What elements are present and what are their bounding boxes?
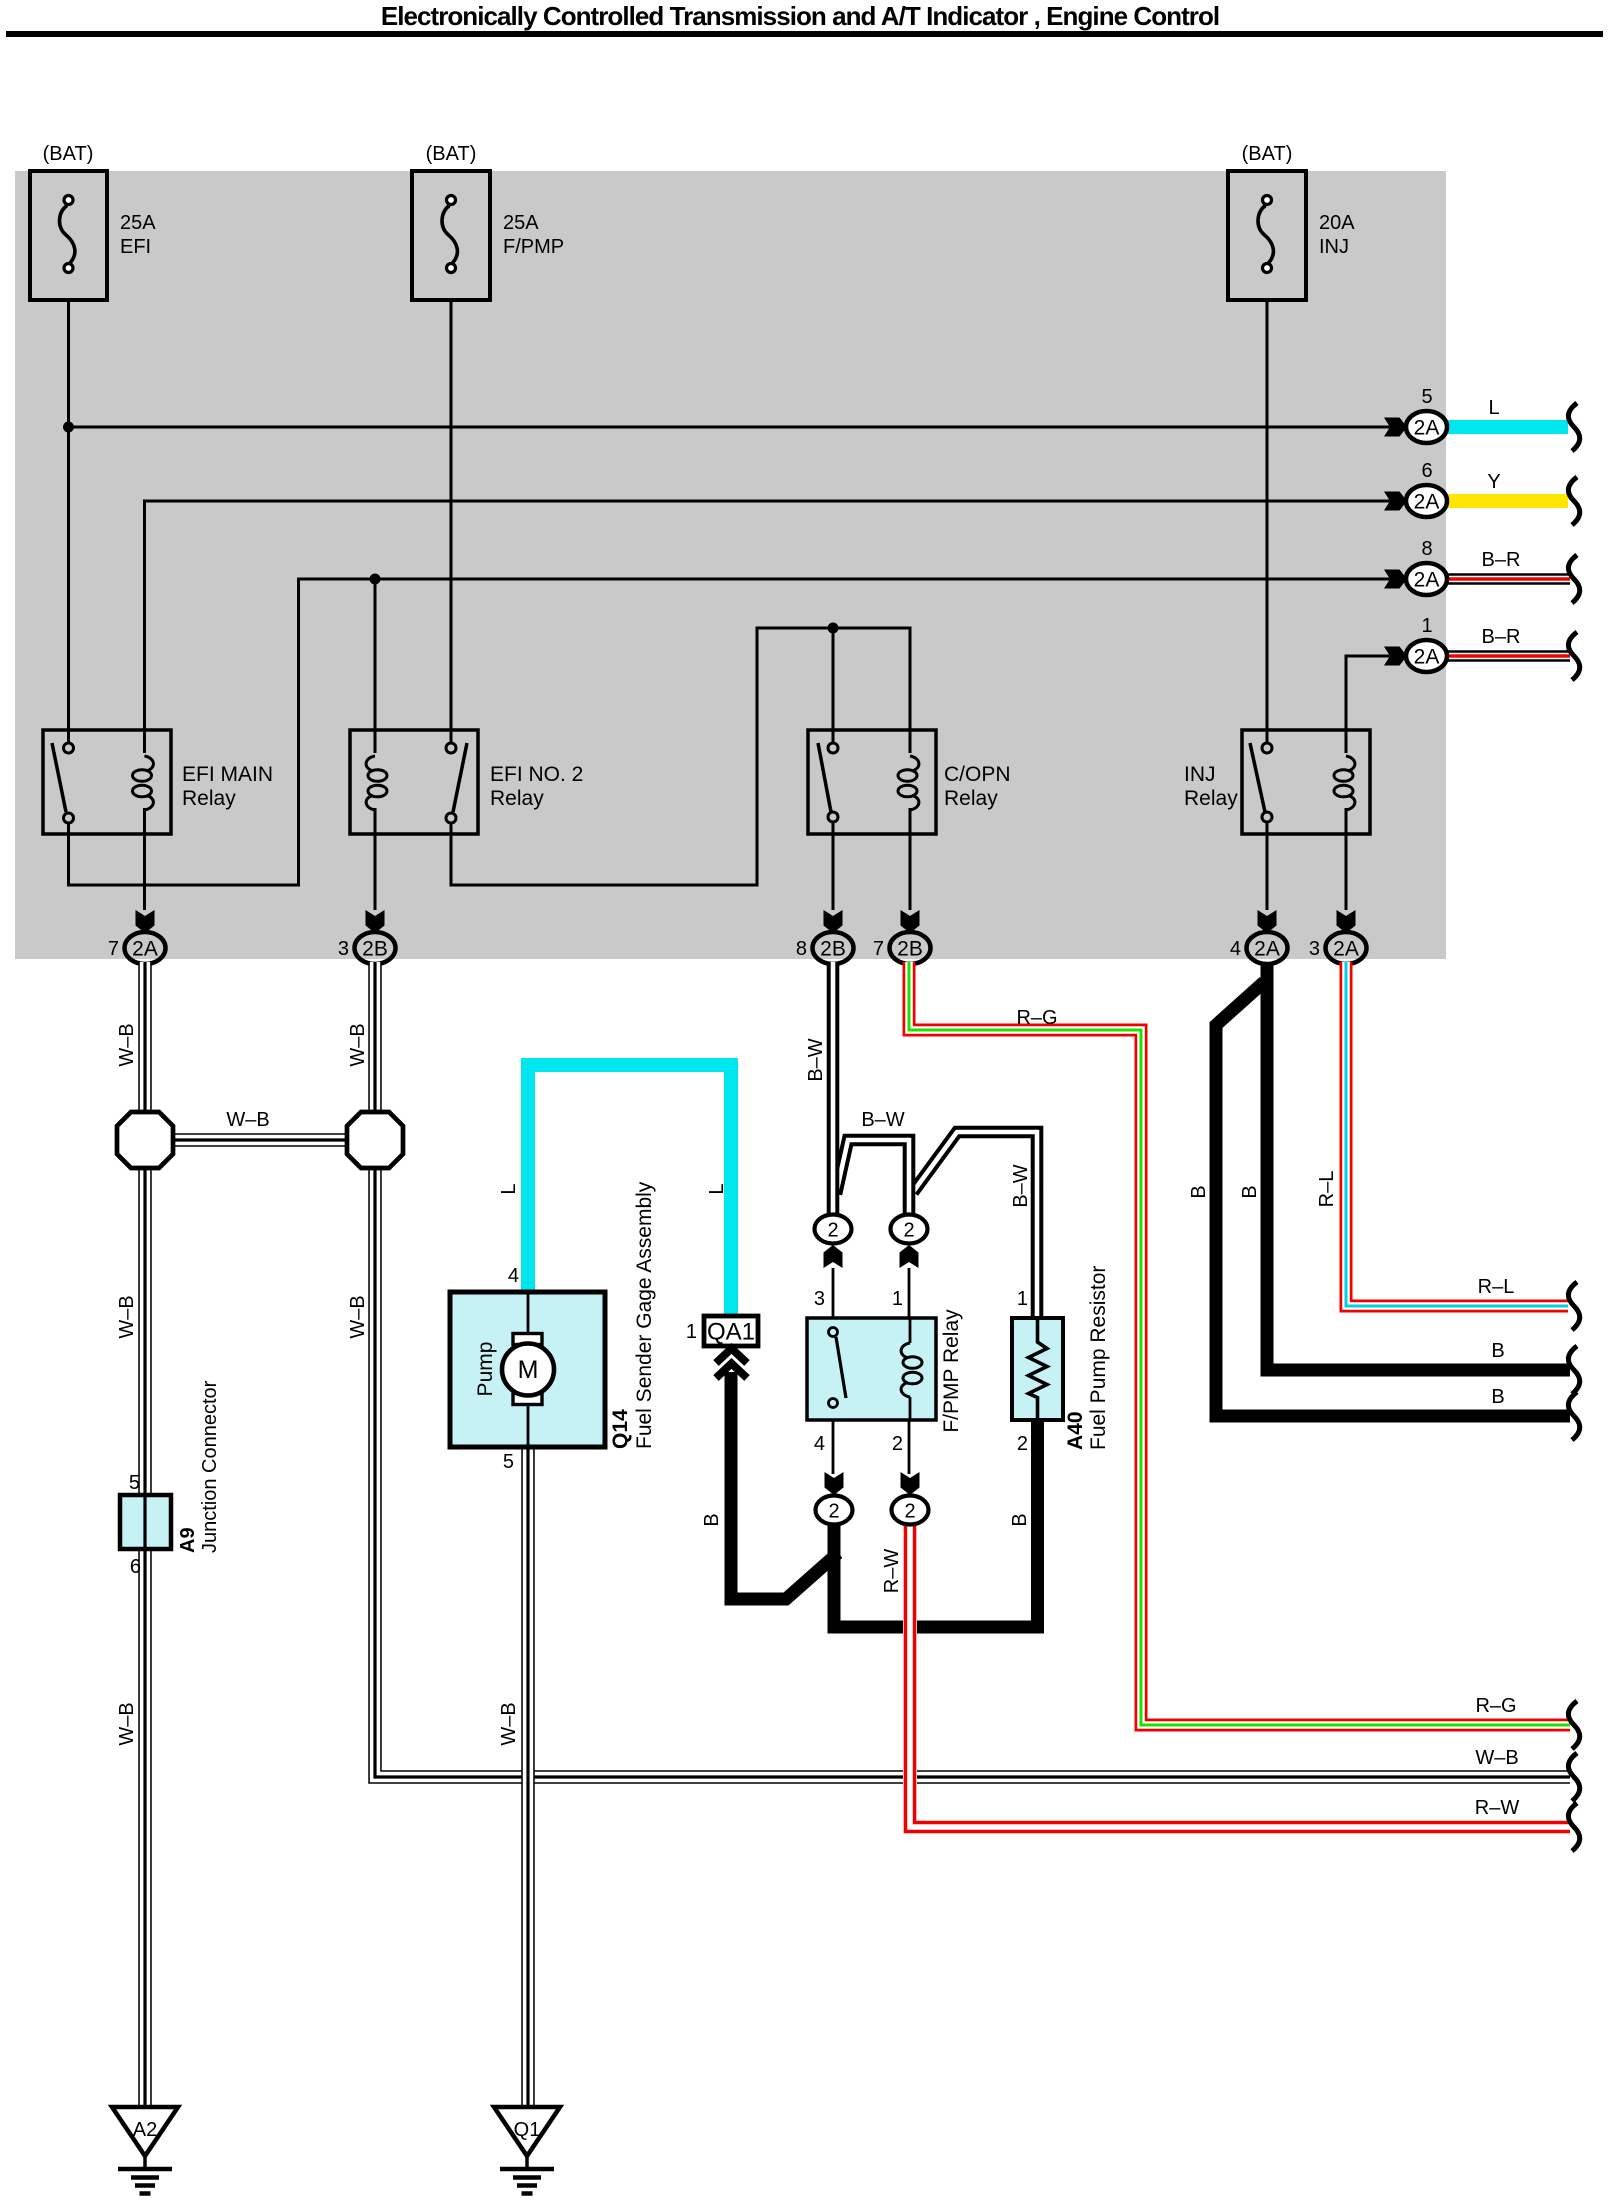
F/PMP relay (807, 1288, 963, 1455)
svg-text:5: 5 (129, 1472, 140, 1494)
svg-text:L: L (498, 1183, 520, 1194)
svg-text:B: B (1491, 1386, 1504, 1408)
svg-text:Y: Y (1487, 471, 1500, 493)
pin 5 row: arrow, connector 2A, wire L (1384, 386, 1580, 451)
wire B-R stub (pin 8) (1448, 573, 1570, 585)
svg-text:R–G: R–G (1475, 1695, 1516, 1717)
svg-text:25A: 25A (120, 212, 156, 234)
wire W-B from 3-2B down then right to ECU (bottom row) (375, 962, 1570, 1777)
arrow into 2A pin 5 (1384, 418, 1407, 437)
connector 8 2B (C/OPN switch out) (796, 910, 854, 964)
wire B-W branch to F/PMP relay pin 1 connector (836, 1140, 909, 1216)
svg-text:7: 7 (873, 938, 884, 960)
svg-text:4: 4 (508, 1265, 519, 1287)
relay EFI MAIN (43, 730, 273, 834)
svg-text:2A: 2A (1414, 569, 1440, 592)
connector 3 2B (EFI NO.2 coil out) (338, 910, 396, 964)
svg-text:5: 5 (503, 1451, 514, 1473)
arrow into 8-2B (824, 910, 843, 933)
svg-text:Relay: Relay (944, 787, 998, 810)
wire break symbol (R-G row) (1568, 1701, 1579, 1749)
svg-text:8: 8 (1421, 538, 1432, 560)
arrow into 3-2A (1337, 910, 1356, 933)
wire R-L from 3-2A down-right to ECU row (1346, 962, 1568, 1306)
wire INJ relay coil up to row pin 1 (2A) (1346, 656, 1391, 753)
wire W-B link between junction connectors (170, 1133, 351, 1147)
arrow into 2A pin 1 (1384, 647, 1407, 666)
ground A2 (112, 2107, 178, 2194)
fuse 25A EFI (30, 143, 156, 300)
connector oval 2A (pin 4) (1247, 932, 1288, 964)
connector oval 2A (pin 7) (125, 932, 166, 964)
svg-text:W–B: W–B (226, 1109, 269, 1131)
connector 2 (F/PMP pin 1 in) (891, 1215, 928, 1319)
wire B thick: INJ 4-2A straight down to ECU row (1267, 962, 1570, 1370)
svg-text:W–B: W–B (116, 1023, 138, 1066)
wire EFI NO.2 relay coil to row 8 junction (374, 579, 377, 753)
wire break symbol (pin 1 row) (1568, 632, 1579, 680)
svg-text:2A: 2A (1333, 938, 1359, 961)
svg-text:B–R: B–R (1482, 549, 1521, 571)
svg-text:(BAT): (BAT) (1242, 143, 1293, 165)
connector 2 (F/PMP pin 3 in) (815, 1215, 852, 1319)
node: junction C/OPN switch branch (828, 623, 839, 634)
svg-text:EFI MAIN: EFI MAIN (182, 763, 273, 786)
wire fuse EFI down to EFI MAIN relay switch (67, 300, 70, 743)
svg-text:2: 2 (892, 1433, 903, 1455)
arrow into 2A pin 8 (1384, 570, 1407, 589)
svg-text:2: 2 (904, 1501, 915, 1523)
title (6, 1, 1603, 37)
svg-text:A9: A9 (177, 1527, 199, 1553)
B labels (701, 1185, 1505, 1526)
svg-text:7: 7 (108, 938, 119, 960)
connector 3 2A (INJ coil out) (1309, 910, 1367, 964)
wire Y stub (pin 6) (1448, 494, 1568, 508)
svg-text:Electronically Controlled Tran: Electronically Controlled Transmission a… (381, 1, 1219, 31)
svg-text:B: B (1009, 1513, 1031, 1526)
svg-text:4: 4 (814, 1433, 825, 1455)
svg-text:Fuel Pump Resistor: Fuel Pump Resistor (1087, 1266, 1110, 1450)
svg-text:F/PMP: F/PMP (503, 236, 564, 258)
connector oval 2B (pin 8) (813, 932, 854, 964)
svg-text:F/PMP Relay: F/PMP Relay (940, 1309, 963, 1433)
connector 7 2B (C/OPN coil out) (873, 910, 931, 964)
connector QA1 (686, 1316, 758, 1378)
wire W-B from 7-2A down to ground A2 (138, 962, 152, 2105)
pin 8 row: arrow, connector 2A, wire B-R (1384, 538, 1580, 603)
wire R-W from F/PMP pin 2 connector down-right to ECU row (910, 1524, 1570, 1827)
svg-text:Relay: Relay (490, 787, 544, 810)
wire break symbols (1568, 1282, 1579, 1330)
svg-text:C/OPN: C/OPN (944, 763, 1011, 786)
connector 2 (F/PMP pin 2 out) (892, 1420, 929, 1525)
wire EFI NO.2 coil down to 3-2B (374, 808, 377, 910)
wire fuse INJ down to INJ relay switch (1266, 300, 1269, 743)
wire break symbol (B row) (1568, 1392, 1579, 1440)
wire break symbol (pin 6 row) (1568, 477, 1579, 525)
svg-text:R–W: R–W (1475, 1797, 1520, 1819)
junction connector octagon right (347, 1112, 403, 1168)
svg-text:R–L: R–L (1316, 1171, 1338, 1208)
wire break symbol (W-B row) (1568, 1753, 1579, 1801)
fuse 20A INJ (1228, 143, 1355, 300)
wire W-B from pump pin 5 down to ground Q1 (521, 1447, 535, 2105)
svg-text:2B: 2B (897, 938, 923, 961)
junction block shaded area (15, 171, 1446, 959)
arrow into 7-2B (901, 910, 920, 933)
connector oval 2A pin 1 (1406, 640, 1447, 672)
svg-text:1: 1 (892, 1288, 903, 1310)
wire C/OPN switch feed (832, 628, 835, 743)
wire fuse F/PMP down to EFI NO.2 relay switch (450, 300, 453, 743)
svg-text:A2: A2 (133, 2119, 157, 2141)
svg-text:INJ: INJ (1184, 763, 1216, 786)
svg-text:1: 1 (1421, 615, 1432, 637)
svg-text:R–L: R–L (1478, 1276, 1515, 1298)
svg-text:6: 6 (130, 1556, 141, 1578)
svg-text:QA1: QA1 (707, 1319, 755, 1346)
wire break symbols for B rows (1568, 1346, 1579, 1394)
connector oval 2A (pin 3) (1326, 932, 1367, 964)
wire C/OPN switch down to 8-2B (832, 822, 835, 910)
svg-text:A40: A40 (1064, 1411, 1087, 1450)
svg-text:3: 3 (1309, 938, 1320, 960)
svg-text:W–B: W–B (116, 1702, 138, 1745)
svg-text:EFI: EFI (120, 236, 151, 258)
relay C/OPN (808, 730, 1011, 834)
connector 7 2A (EFI MAIN coil out) (108, 910, 166, 964)
svg-text:R–G: R–G (1016, 1007, 1057, 1029)
connector oval 2B (pin 3) (355, 932, 396, 964)
wire EFI MAIN coil down to 7-2A (143, 808, 146, 910)
svg-text:(BAT): (BAT) (426, 143, 477, 165)
wire row to pin 5 (2A) (69, 426, 1392, 429)
svg-text:2: 2 (1017, 1433, 1028, 1455)
wire C/OPN coil down to 7-2B (909, 808, 912, 910)
wire B-R stub (pin 1) (1448, 650, 1570, 662)
junction connector octagon left (117, 1112, 173, 1168)
wire L stub (pin 5) (1448, 420, 1568, 434)
svg-text:25A: 25A (503, 212, 539, 234)
svg-text:3: 3 (814, 1288, 825, 1310)
pin 1 row: arrow, connector 2A, wire B-R (1384, 615, 1580, 680)
svg-text:1: 1 (686, 1321, 697, 1343)
wire break symbol (pin 8 row) (1568, 555, 1579, 603)
arrow into 2A pin 6 (1384, 492, 1407, 511)
connector oval 2A pin 6 (1406, 485, 1447, 517)
svg-text:20A: 20A (1319, 212, 1355, 234)
fuel sender gage assembly Q14 (450, 1181, 656, 1473)
pump motor M (513, 1334, 542, 1345)
svg-text:Relay: Relay (1184, 787, 1238, 810)
svg-text:2B: 2B (362, 938, 388, 961)
pin 6 row: arrow, connector 2A, wire Y (1384, 460, 1580, 525)
connector oval 2A pin 8 (1406, 563, 1447, 595)
svg-text:2: 2 (828, 1501, 839, 1523)
wire break symbol (R-W row) (1568, 1803, 1579, 1851)
svg-text:Pump: Pump (474, 1342, 497, 1397)
fuel pump resistor A40 (1012, 1266, 1110, 1455)
wire B-W branch to fuel pump resistor A40 pin 1 (913, 1132, 1037, 1318)
wire L (blue) from pump pin 4 to QA1 (528, 1065, 731, 1318)
svg-text:M: M (518, 1356, 539, 1384)
svg-text:B–W: B–W (805, 1038, 827, 1081)
svg-text:W–B: W–B (498, 1702, 520, 1745)
node: junction fuse EFI / row 5 (63, 422, 74, 433)
fuse 25A F/PMP (412, 143, 564, 300)
wire row to pin 6 (2A) from EFI MAIN relay coil (145, 501, 1392, 753)
connector oval 2B (pin 7) (890, 932, 931, 964)
svg-text:EFI NO. 2: EFI NO. 2 (490, 763, 583, 786)
wire B thick: A40 pin 2 down, left, up to F/PMP pin 4 connector (834, 1420, 1038, 1627)
wire break symbol (pin 5 row) (1568, 403, 1579, 451)
svg-text:2A: 2A (1254, 938, 1280, 961)
svg-text:1: 1 (1017, 1288, 1028, 1310)
svg-text:B–W: B–W (861, 1109, 904, 1131)
svg-text:2A: 2A (1414, 646, 1440, 669)
svg-text:W–B: W–B (347, 1295, 369, 1338)
wire B thick: INJ 4-2A diagonal branch down to lower ECU row (1216, 982, 1570, 1416)
relay EFI NO. 2 (350, 730, 583, 834)
svg-text:Relay: Relay (182, 787, 236, 810)
svg-text:B: B (1188, 1185, 1210, 1198)
junction connector A9 (120, 1380, 221, 1578)
svg-text:L: L (1488, 397, 1499, 419)
arrow into 3-2B (366, 910, 385, 933)
svg-text:2: 2 (827, 1220, 838, 1242)
svg-text:W–B: W–B (116, 1295, 138, 1338)
svg-text:L: L (706, 1183, 728, 1194)
relay INJ (1184, 730, 1370, 834)
wire INJ switch down to 4-2A (1266, 822, 1269, 910)
svg-text:B: B (701, 1513, 723, 1526)
svg-text:B–W: B–W (1010, 1164, 1032, 1207)
wire B thick: branch to QA1 fuel pump feed (731, 1372, 838, 1599)
wire B-W from 8-2B down to F/PMP relay pin 3 connector (827, 962, 840, 1216)
svg-text:INJ: INJ (1319, 236, 1349, 258)
svg-text:B–R: B–R (1482, 626, 1521, 648)
svg-text:B: B (1239, 1185, 1261, 1198)
svg-text:3: 3 (338, 938, 349, 960)
svg-text:2A: 2A (1414, 417, 1440, 440)
connector 2 (F/PMP pin 4 out) (816, 1420, 853, 1525)
svg-text:4: 4 (1230, 938, 1241, 960)
svg-text:Q1: Q1 (514, 2119, 541, 2141)
wire EFI MAIN switch out, up to row pin 8 (2A) (69, 579, 1392, 885)
svg-text:Junction Connector: Junction Connector (199, 1380, 221, 1553)
svg-text:Q14: Q14 (609, 1409, 632, 1449)
wire EFI NO.2 switch out to C/OPN branch row (451, 628, 910, 885)
svg-text:6: 6 (1421, 460, 1432, 482)
svg-text:8: 8 (796, 938, 807, 960)
wire INJ coil down to 3-2A (1345, 808, 1348, 910)
svg-text:B: B (1491, 1340, 1504, 1362)
arrow into 4-2A (1258, 910, 1277, 933)
connector oval 2A pin 5 (1406, 411, 1447, 443)
svg-text:2A: 2A (132, 938, 158, 961)
svg-text:W–B: W–B (347, 1023, 369, 1066)
node: junction row 8 / EFI NO.2 coil (370, 574, 381, 585)
svg-text:W–B: W–B (1475, 1747, 1518, 1769)
svg-text:(BAT): (BAT) (43, 143, 94, 165)
svg-text:5: 5 (1421, 386, 1432, 408)
arrow into 7-2A (136, 910, 155, 933)
connector 4 2A (INJ switch out) (1230, 910, 1288, 964)
svg-text:2B: 2B (820, 938, 846, 961)
ground Q1 (494, 2107, 560, 2194)
svg-text:2A: 2A (1414, 491, 1440, 514)
svg-text:2: 2 (903, 1220, 914, 1242)
wire R-G from 7-2B down-right-down to ECU row (909, 962, 1570, 1725)
svg-text:Fuel Sender Gage Assembly: Fuel Sender Gage Assembly (633, 1181, 656, 1449)
svg-text:R–W: R–W (881, 1549, 903, 1594)
